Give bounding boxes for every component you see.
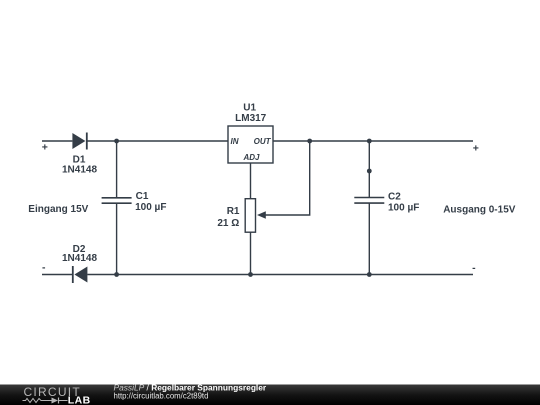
logo diode symbol <box>52 398 59 404</box>
wire: U1 ADJ pin down to R1 top <box>250 163 252 199</box>
wire: top rail from U1 OUT pin to + output <box>273 140 473 142</box>
wiper arrowhead into R1 <box>257 211 266 219</box>
node: junction OUT/wiper net <box>307 139 312 144</box>
wire: bottom rail from D2 to - output <box>87 274 473 276</box>
svg-text:100 µF: 100 µF <box>388 203 419 214</box>
svg-text:IN: IN <box>231 137 239 146</box>
wire: C1 vertical upper segment <box>116 141 118 198</box>
node: junction bottom rail / C1 <box>114 272 119 277</box>
svg-text:1N4148: 1N4148 <box>62 253 97 264</box>
svg-text:100 µF: 100 µF <box>135 202 166 213</box>
wire: C2 vertical lower segment <box>368 203 370 274</box>
svg-text:-: - <box>472 262 476 274</box>
wire: R1 bottom down to bottom rail <box>250 232 252 274</box>
svg-text:Ausgang 0-15V: Ausgang 0-15V <box>443 204 516 215</box>
IC U1 LM317 body <box>228 126 273 163</box>
svg-text:-: - <box>42 262 46 274</box>
capacitor C2 <box>354 198 384 204</box>
diode D1 <box>72 133 86 150</box>
svg-text:LAB: LAB <box>68 395 91 405</box>
svg-text:LM317: LM317 <box>235 113 267 124</box>
svg-text:C2: C2 <box>388 192 401 203</box>
wire: wiper feedback from OUT node down and left to R1 <box>265 141 310 215</box>
wire: bottom rail left segment (- input to D2 bar) <box>42 274 73 276</box>
svg-text:U1: U1 <box>243 102 256 113</box>
svg-text:http://circuitlab.com/c2t89td: http://circuitlab.com/c2t89td <box>114 392 209 401</box>
logo wire to diode <box>45 400 52 402</box>
node: junction OUT/C2 top <box>367 139 372 144</box>
svg-text:21 Ω: 21 Ω <box>217 218 239 229</box>
wire: top rail left segment (+ input to D1 anode) <box>42 140 72 142</box>
wire: top rail from D1 cathode to U1 IN pin <box>87 140 228 142</box>
resistor R1 (potentiometer body) <box>245 199 255 233</box>
wire: C1 vertical lower segment <box>116 203 118 274</box>
svg-text:Eingang 15V: Eingang 15V <box>28 204 88 215</box>
svg-text:+: + <box>42 142 48 154</box>
svg-text:R1: R1 <box>227 206 240 217</box>
node: junction bottom rail / C2 <box>367 272 372 277</box>
wire: C2 vertical upper segment <box>368 141 370 171</box>
svg-text:ADJ: ADJ <box>242 153 260 162</box>
svg-text:OUT: OUT <box>254 137 272 146</box>
node: junction D1/C1/U1 net <box>114 139 119 144</box>
capacitor C1 <box>102 198 132 203</box>
wire: C2 vertical middle segment <box>368 171 370 198</box>
svg-text:1N4148: 1N4148 <box>62 164 97 175</box>
logo resistor zigzag <box>23 399 46 403</box>
diode D2 <box>73 266 88 283</box>
svg-text:C1: C1 <box>136 191 149 202</box>
svg-text:+: + <box>473 143 479 155</box>
node: C2 wire segment joint <box>367 169 372 174</box>
node: junction bottom rail / R1 <box>248 272 253 277</box>
